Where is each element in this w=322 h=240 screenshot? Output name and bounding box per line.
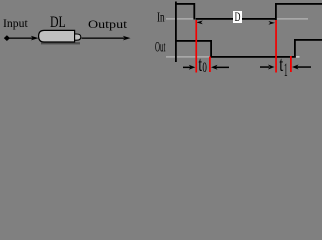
- svg-text:1: 1: [284, 60, 288, 78]
- svg-text:D: D: [235, 9, 241, 24]
- svg-text:Out: Out: [155, 40, 165, 56]
- svg-text:Input: Input: [3, 18, 29, 30]
- svg-text:Output: Output: [88, 19, 128, 31]
- svg-text:In: In: [157, 10, 165, 25]
- svg-text:DL: DL: [50, 14, 66, 31]
- svg-text:0: 0: [202, 60, 207, 76]
- svg-text:t: t: [279, 52, 283, 76]
